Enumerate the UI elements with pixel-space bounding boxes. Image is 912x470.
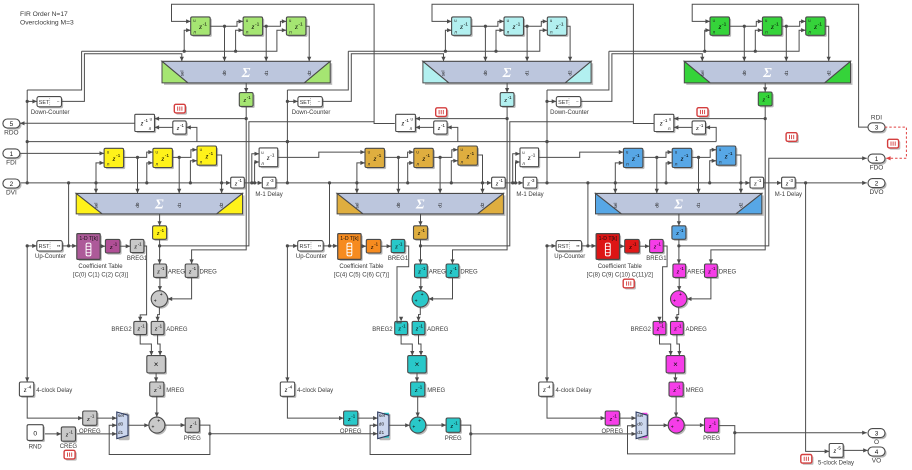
col3 valid rail	[537, 181, 750, 185]
col3 Coefficient Table block	[596, 234, 621, 261]
svg-text:л: л	[675, 162, 678, 167]
col2 MREG label	[427, 388, 445, 394]
svg-text:4-clock Delay: 4-clock Delay	[297, 388, 333, 394]
svg-text:-1: -1	[635, 153, 640, 159]
red badge icon at RDI dashed	[888, 139, 901, 149]
svg-text:-1: -1	[405, 118, 410, 123]
col1 up-counter to coeff table	[62, 244, 77, 248]
svg-text:d2: d2	[568, 70, 573, 76]
svg-text:0: 0	[33, 430, 37, 437]
svg-text:-1: -1	[298, 21, 303, 27]
col1 valid top corner to rail riser	[27, 51, 81, 90]
svg-text:d2: d2	[307, 70, 312, 76]
col1 MREG (z^-1)	[150, 382, 166, 398]
col3 mid sum out to delay	[677, 214, 681, 226]
col1 coefficient delay (z^-1)	[105, 239, 121, 254]
red badge icon below col3 coeff label	[623, 279, 636, 289]
svg-text:Σ: Σ	[762, 66, 772, 81]
col3 enable rail for top row	[609, 28, 806, 53]
svg-text:-4: -4	[288, 385, 293, 390]
svg-text:RST: RST	[558, 244, 569, 250]
svg-text:RST: RST	[39, 244, 50, 250]
svg-text:-1: -1	[165, 153, 170, 159]
col2 rate-transition register (z^-1 u)	[396, 114, 417, 133]
col1 wire top block1 to block2	[210, 19, 243, 26]
svg-text:-3: -3	[270, 178, 274, 183]
col2 row-end delay (z^-1)	[492, 177, 507, 189]
svg-text:-1: -1	[657, 241, 661, 246]
svg-text:-1: -1	[660, 323, 664, 328]
col2 M-1 Delay label	[516, 192, 543, 198]
col1 B cascade wire	[160, 122, 375, 246]
svg-text:+: +	[673, 298, 676, 304]
svg-text:-1: -1	[818, 21, 823, 27]
col2 mid delay block 3 (z^-1)	[458, 146, 479, 167]
svg-text:-1: -1	[441, 123, 445, 128]
col1 4-clock Delay (z^-4)	[19, 382, 35, 398]
col1 output adder to PREG	[165, 423, 185, 427]
col2 Coefficient Table label2	[334, 272, 389, 278]
svg-text:-1: -1	[712, 266, 716, 271]
col3 top delay block 1 (z^-1)	[710, 17, 731, 37]
col2 fwd cascade to next column	[539, 150, 624, 157]
svg-text:VO: VO	[872, 457, 881, 464]
svg-text:-1: -1	[374, 242, 378, 247]
info text line1	[20, 11, 68, 18]
svg-text:z: z	[512, 22, 516, 31]
col1 PREG out and loop	[109, 423, 211, 454]
CREG (z^-1)	[61, 427, 77, 443]
svg-text:-1: -1	[421, 228, 425, 233]
svg-text:FDI: FDI	[6, 159, 17, 166]
svg-text:л: л	[765, 30, 768, 35]
svg-text:×: ×	[673, 360, 678, 369]
svg-text:+: +	[679, 292, 682, 298]
col3 OPREG (z^-1)	[605, 411, 621, 427]
col1 OPREG label	[79, 429, 101, 435]
col3 wire rdo delay out to rate reg	[674, 125, 692, 129]
svg-text:л: л	[713, 30, 716, 35]
col1 wire mid block1 branch to mid sum in2	[135, 156, 139, 194]
svg-text:d0: d0	[483, 70, 488, 76]
svg-text:л: л	[461, 159, 464, 164]
col2 mid delay down to AREG	[418, 239, 422, 264]
col1 top delay block 2 (z^-1)	[243, 17, 264, 37]
svg-text:sel: sel	[379, 413, 385, 419]
5-clock Delay label	[818, 461, 854, 467]
col3 pre-adder to ADREG	[675, 307, 679, 321]
svg-text:PREG: PREG	[703, 436, 720, 442]
col2 Up-Counter label	[296, 254, 327, 260]
svg-text:d1: d1	[177, 202, 182, 208]
svg-text:d2: d2	[739, 202, 744, 208]
svg-text:-1: -1	[69, 429, 73, 434]
col3 output adder to PREG	[684, 423, 704, 427]
svg-text:Σ: Σ	[154, 198, 164, 213]
svg-text:d1: d1	[696, 202, 701, 208]
svg-text:z: z	[631, 154, 635, 163]
svg-text:sel: sel	[700, 71, 705, 77]
col2 wire mid block1 branch to mid sum in2	[396, 156, 400, 194]
col1 valid rail	[20, 181, 231, 185]
col2 BREG2 label	[372, 327, 393, 333]
col3 Down-Counter label	[550, 110, 589, 116]
svg-text:MREG: MREG	[427, 388, 445, 394]
svg-text:Coefficient Table: Coefficient Table	[598, 264, 643, 270]
col2 enable riser to mid block1	[357, 161, 365, 183]
col1 wire junction left to rate reg top input	[155, 117, 247, 121]
svg-text:-3: -3	[531, 178, 535, 183]
svg-text:-1: -1	[728, 151, 733, 157]
svg-text:DVO: DVO	[869, 189, 883, 196]
col3 AREG to pre-adder	[677, 277, 681, 290]
svg-text:Σ: Σ	[673, 198, 683, 213]
col3 wire top block1 branch to sum in2	[742, 25, 746, 62]
col3 output adder circle	[668, 417, 686, 435]
svg-text:-1: -1	[499, 178, 503, 183]
col3 rate-transition register (z^-1 u)	[654, 114, 675, 133]
svg-text:л: л	[193, 30, 196, 35]
svg-text:л: л	[149, 126, 152, 131]
svg-text:-1: -1	[157, 385, 161, 390]
svg-text:-1: -1	[766, 94, 770, 99]
col2 AREG to pre-adder	[419, 277, 423, 290]
col3 M-1 delay to DVO	[796, 181, 867, 185]
col2 wire row-end delay to M-1 delay	[505, 181, 523, 185]
col1 ADREG label	[166, 327, 188, 333]
col3 Coefficient Table label2	[587, 272, 654, 278]
col1 Coefficient Table block	[77, 234, 102, 261]
col2 top delay block 2 (z^-1)	[504, 17, 525, 37]
svg-text:DREG: DREG	[200, 270, 218, 276]
col2 pre-adder to ADREG	[416, 307, 420, 321]
svg-text:-3: -3	[789, 178, 793, 183]
col1 valid vertical upper	[26, 90, 29, 183]
red badge icon near col2 rdo delay	[436, 108, 449, 118]
svg-text:RDI: RDI	[871, 115, 882, 122]
col1 4-clock Delay label	[36, 388, 72, 394]
col3 coefficient delay (z^-1)	[625, 239, 641, 254]
col2 coeff table to coeff delay	[361, 244, 366, 248]
red badge icon below CREG	[64, 450, 77, 460]
col3 rdo delay (z^-1)	[692, 121, 707, 136]
svg-text:MREG: MREG	[686, 388, 704, 394]
col2 riser to fwd cascade reg in2	[515, 160, 520, 183]
svg-text:sel: sel	[179, 71, 184, 77]
svg-text:d0: d0	[396, 202, 401, 208]
col3 4-clock Delay (z^-4)	[539, 382, 555, 398]
svg-text:-1: -1	[402, 323, 406, 328]
svg-text:+: +	[671, 425, 674, 431]
col2 multiplier to MREG	[415, 373, 419, 382]
col2 wire top block1 to block2	[471, 19, 504, 26]
col1 4-clock delay to OPREG	[27, 396, 82, 420]
svg-text:-1: -1	[464, 21, 469, 27]
svg-text:−: −	[57, 100, 60, 105]
col2 enable riser to top block2	[496, 28, 504, 51]
svg-text:d0: d0	[654, 202, 659, 208]
svg-text:-1: -1	[722, 21, 727, 27]
svg-text:d0: d0	[742, 70, 747, 76]
col2 enable riser to top block1	[445, 28, 451, 51]
svg-text:z: z	[204, 152, 208, 161]
svg-text:AREG: AREG	[687, 270, 704, 276]
col2 BREG1 label	[388, 256, 409, 262]
col2 valid top corner to rail riser	[287, 51, 348, 90]
col3 DVO drop to 5-clock delay	[806, 183, 830, 454]
col2 forward cascade register (z^-1 u)	[520, 148, 540, 168]
col2 4-clock Delay label	[297, 388, 333, 394]
svg-text:-1: -1	[680, 266, 684, 271]
svg-text:Down-Counter: Down-Counter	[31, 110, 70, 116]
svg-text:Σ: Σ	[415, 198, 425, 213]
col2 wire top sum out to delay	[505, 83, 509, 93]
col2 rdo delay (z^-1)	[434, 121, 449, 136]
col1 top delay block 3 (z^-1)	[286, 17, 307, 37]
col1 enable rail for top row	[82, 28, 287, 53]
col3 BREG1 label	[646, 256, 667, 262]
svg-text:z: z	[555, 22, 559, 31]
col3 delay below mid sum (z^-1)	[672, 226, 688, 241]
svg-text:d2: d2	[826, 70, 831, 76]
col1 mid sum input1 stub	[94, 183, 98, 194]
col2 Up-Counter block	[298, 241, 325, 253]
col3 wire mid block2 to block3	[692, 148, 717, 158]
svg-text:AREG: AREG	[429, 270, 446, 276]
svg-text:z: z	[459, 22, 463, 31]
col2 ADREG to multiplier	[419, 335, 424, 356]
col2 Down-Counter block	[298, 97, 324, 109]
svg-text:sel: sel	[94, 203, 99, 209]
col3 M-1 Delay label	[775, 192, 802, 198]
col1 Up-Counter block	[37, 241, 64, 253]
svg-text:-1: -1	[193, 421, 197, 426]
svg-text:Coefficient Table: Coefficient Table	[339, 264, 384, 270]
col1 Down-Counter label	[31, 110, 70, 116]
svg-text:MREG: MREG	[166, 388, 184, 394]
col2 AREG label	[429, 270, 446, 276]
svg-text:5-clock Delay: 5-clock Delay	[818, 461, 854, 467]
svg-text:-1: -1	[161, 266, 165, 271]
svg-text:••: ••	[318, 245, 322, 250]
svg-text:d0: d0	[118, 422, 124, 428]
col2 top delay block 1 (z^-1)	[452, 17, 473, 37]
svg-text:-1: -1	[399, 241, 403, 246]
col1 wire mid block1 to block2	[124, 150, 153, 157]
col2 mid sum input1 stub	[355, 183, 359, 194]
svg-text:d1: d1	[118, 430, 124, 436]
svg-text:×: ×	[415, 360, 420, 369]
col1 row-end delay (z^-1)	[231, 177, 246, 189]
col2 MREG to output adder	[416, 396, 420, 417]
col2 mux to output adder	[389, 423, 410, 427]
col2 valid down to 4-clock delay	[285, 244, 289, 382]
col1 BREG1 label	[127, 256, 148, 262]
svg-text:d2: d2	[480, 202, 485, 208]
red badge icon near 5-clock delay	[801, 455, 814, 465]
col1 DREG to pre-adder	[168, 277, 192, 301]
col2 BREG1 to BREG2	[397, 246, 409, 323]
svg-text:z: z	[251, 22, 255, 31]
svg-text:-1: -1	[774, 21, 779, 27]
col3 mux to output adder	[647, 423, 668, 427]
col3 wire top block1 to block2	[730, 19, 763, 26]
svg-text:-1: -1	[192, 266, 196, 271]
col2 dc input stub	[287, 99, 298, 103]
svg-text:-1: -1	[712, 421, 716, 426]
svg-text:BREG1: BREG1	[388, 256, 409, 262]
svg-text:M-1 Delay: M-1 Delay	[775, 192, 802, 198]
col3 BREG2 label	[631, 327, 652, 333]
svg-text:d0: d0	[135, 202, 140, 208]
col3 OPREG to mux sel	[619, 416, 636, 420]
col1 Coefficient Table label1	[78, 264, 123, 270]
col3 DREG (z^-1)	[705, 264, 719, 279]
col3 valid top corner to rail riser	[547, 51, 609, 90]
svg-text:-1: -1	[699, 123, 703, 128]
col2 coefficient delay (z^-1)	[366, 239, 382, 254]
svg-text:л: л	[416, 162, 419, 167]
col2 BREG2 to multiplier	[401, 335, 414, 356]
svg-text:M-1 Delay: M-1 Delay	[516, 192, 543, 198]
svg-text:-1: -1	[453, 266, 457, 271]
top loop segment3 from RDI	[692, 4, 868, 127]
svg-text:2: 2	[10, 181, 14, 188]
col1 multiplier to MREG	[154, 373, 158, 382]
col1 OPREG to mux sel	[97, 416, 117, 420]
svg-text:×: ×	[154, 360, 159, 369]
svg-text:-1: -1	[180, 123, 184, 128]
svg-text:CREG: CREG	[60, 444, 78, 450]
svg-text:л: л	[246, 30, 249, 35]
col2 wire mid block2 to block3	[433, 148, 458, 158]
red badge icon right of col3 row	[786, 133, 799, 143]
col2 wire top block2 branch to sum in3	[525, 25, 529, 62]
col2 dc out to sel rail	[322, 54, 445, 102]
svg-text:л: л	[156, 162, 159, 167]
col2 AREG (z^-1)	[415, 264, 429, 279]
top loop segment2	[432, 4, 654, 123]
svg-text:л: л	[368, 162, 371, 167]
col3 ADREG (z^-1)	[671, 321, 685, 336]
col1 output adder circle	[149, 417, 167, 435]
svg-text:5: 5	[10, 121, 14, 128]
svg-text:-1: -1	[426, 153, 431, 159]
svg-text:-1: -1	[141, 323, 145, 328]
svg-text:4-clock Delay: 4-clock Delay	[556, 388, 592, 394]
output port VO (4)	[868, 447, 887, 464]
col3 Up-Counter label	[554, 254, 585, 260]
svg-text:-1: -1	[508, 95, 512, 100]
svg-text:3: 3	[875, 125, 879, 132]
col1 MREG label	[166, 388, 184, 394]
col2 output adder circle	[410, 417, 428, 435]
svg-text:[C(0) C(1) C(2) C(3)]: [C(0) C(1) C(2) C(3)]	[73, 272, 128, 278]
col1 mid sum block	[76, 193, 244, 216]
svg-text:-1: -1	[454, 421, 458, 426]
col1 M-1 Delay (z^-3)	[262, 177, 277, 189]
svg-text:RST: RST	[300, 244, 311, 250]
svg-text:M-1 Delay: M-1 Delay	[255, 192, 282, 198]
svg-text:BREG1: BREG1	[646, 256, 667, 262]
col1 CREG to mux d1	[76, 432, 117, 436]
col1 BREG1 (z^-1)	[130, 239, 145, 254]
col3 4-clock Delay label	[556, 388, 592, 394]
col1 enable riser to top block2	[236, 28, 244, 51]
svg-text:3: 3	[875, 431, 879, 438]
svg-text:d1: d1	[525, 70, 530, 76]
col1 mid delay block 2 (z^-1)	[153, 148, 174, 169]
svg-text:Down-Counter: Down-Counter	[292, 110, 331, 116]
col2 4-clock delay to OPREG	[287, 396, 343, 420]
svg-text:ADREG: ADREG	[427, 327, 449, 333]
col1 enable riser to top block1	[184, 28, 191, 51]
svg-text:л: л	[289, 30, 292, 35]
svg-text:d0: d0	[222, 70, 227, 76]
svg-text:−: −	[576, 100, 579, 105]
svg-text:л: л	[626, 162, 629, 167]
col1 wire riser into rdo delay input	[186, 125, 197, 141]
col2 delay below top sum (z^-1)	[500, 93, 515, 108]
wire rate reg to RDO port	[20, 121, 135, 125]
svg-text:DREG: DREG	[719, 270, 737, 276]
col2 Coefficient Table block	[338, 234, 363, 261]
col2 wire rdo delay out to rate reg	[415, 125, 433, 129]
input port DVI (2)	[3, 179, 22, 196]
svg-text:-1: -1	[113, 242, 117, 247]
svg-text:-1: -1	[633, 242, 637, 247]
col2 BREG1 (z^-1)	[391, 239, 406, 254]
col1 forward cascade register (z^-1 u)	[259, 148, 279, 168]
svg-text:d0: d0	[379, 422, 385, 428]
svg-text:d1: d1	[379, 430, 385, 436]
col2 wire top block2 to block3	[524, 19, 548, 26]
col1 enable riser to mid block2	[147, 161, 153, 183]
svg-text:z: z	[680, 154, 684, 163]
svg-text:-1: -1	[351, 414, 355, 419]
col2 wire riser into rdo delay input	[447, 125, 458, 141]
svg-text:d2: d2	[219, 202, 224, 208]
col1 delay below mid sum (z^-1)	[153, 226, 169, 241]
svg-text:RDO: RDO	[4, 129, 18, 136]
wire FDI to mid block1	[20, 151, 104, 155]
col1 dc input stub	[27, 99, 37, 103]
col1 MREG to output adder	[155, 396, 159, 417]
input port RDO (5)	[3, 119, 22, 136]
svg-text:O: O	[874, 439, 879, 446]
col3 coeff delay to BREG1	[639, 244, 649, 248]
col2 output adder to PREG	[426, 423, 446, 427]
col1 DREG (z^-1)	[185, 264, 199, 279]
svg-text:л: л	[410, 126, 413, 131]
output port RDI (3)	[868, 115, 887, 134]
svg-text:л: л	[719, 159, 722, 164]
col1 Up-Counter label	[35, 254, 66, 260]
col2 wire mid block1 to block2	[385, 150, 414, 157]
col3 dc out to sel rail	[581, 54, 705, 102]
svg-text:-1: -1	[160, 228, 164, 233]
col2 BREG2 (z^-1)	[395, 321, 409, 336]
svg-text:−: −	[318, 100, 321, 105]
col1 mid sum out to delay	[158, 214, 162, 226]
col1 Down-Counter block	[37, 97, 63, 109]
col2 mid sum block	[337, 193, 505, 216]
svg-text:-1: -1	[470, 151, 475, 157]
svg-text:sel: sel	[440, 71, 445, 77]
svg-text:z: z	[112, 154, 116, 163]
col1 ADREG (z^-1)	[151, 321, 165, 336]
col1 top delay block 1 (z^-1)	[191, 17, 212, 37]
